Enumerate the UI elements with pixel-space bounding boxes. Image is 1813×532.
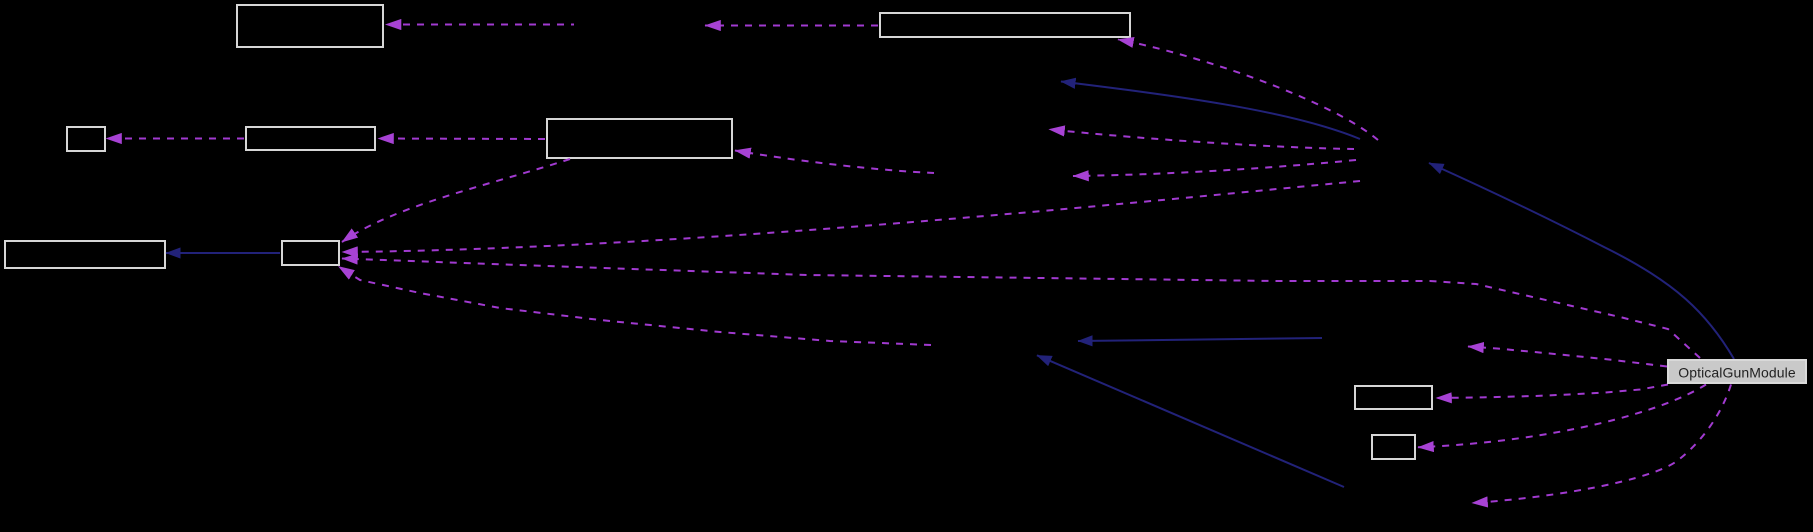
node B5 (bottom-left empty class box): [5, 241, 165, 268]
node B1 (top-left empty class box): [237, 5, 383, 47]
edge E7: dashed arrow from N1 to invisible node N3: [1049, 129, 1354, 149]
edge S1: solid inheritance arrow from B6 to B5: [166, 252, 280, 254]
edge E2: dashed arrow from B7 to invisible node N5: [705, 25, 878, 27]
node B2 (small empty class box, far left): [67, 127, 105, 151]
node OpticalGunModule (current class, highlighted): [1668, 360, 1806, 383]
edge E1: dashed arrow into B1 from invisible node N5: [386, 24, 575, 26]
edge E8: dashed arrow from N1 to invisible node N4: [1073, 160, 1356, 176]
edge S4: solid inheritance arrow from invisible node N7 to N6: [1078, 338, 1322, 341]
edge E14: dashed arrow from OpticalGunModule to B8: [1436, 385, 1668, 399]
node B6 (small empty class box, hub): [282, 241, 339, 265]
edge E6: dashed curve from invisible node N1 to B7 bottom-right corner: [1118, 40, 1378, 141]
edge E16: dashed curve from OpticalGunModule to invisible node N8: [1472, 385, 1731, 504]
node B9 (small empty class box, bottom right): [1372, 435, 1415, 459]
edge S5: long solid inheritance arrow from invisible node N8 to N6: [1037, 355, 1344, 487]
edge S3: solid inheritance arc from OpticalGunModule to N1: [1429, 163, 1734, 359]
edge E5: dashed arrow from invisible node N4 to B4: [735, 151, 934, 174]
node B3 (empty class box): [246, 127, 375, 150]
node B8 (empty class box, bottom right): [1355, 386, 1432, 409]
edge E3: dashed arrow from B3 to B2: [106, 138, 244, 140]
node B4 (two-line empty class box): [547, 119, 732, 158]
edge E12: dashed curve from invisible node N6 to B6 bottom-right corner: [339, 267, 932, 346]
edge E10: dashed curve from B4 bottom to B6 top-right corner: [342, 159, 570, 242]
edge E11: long sagging dashed curve from OpticalGunModule to B6: [342, 259, 1700, 359]
edge S2: solid inheritance arrow from N1 to invisible node N2: [1061, 82, 1360, 140]
edge E13: dashed arrow from OpticalGunModule to invisible node N7: [1468, 347, 1667, 367]
edge E9: long dashed curve from N1 to B6 right edge: [342, 181, 1360, 252]
edge E15: dashed arrow from OpticalGunModule to B9: [1418, 385, 1706, 448]
edge E4: dashed arrow from B4 to B3: [378, 138, 545, 141]
svg-text:OpticalGunModule: OpticalGunModule: [1678, 365, 1796, 381]
node B7 (wide empty class box, top middle): [880, 13, 1130, 37]
